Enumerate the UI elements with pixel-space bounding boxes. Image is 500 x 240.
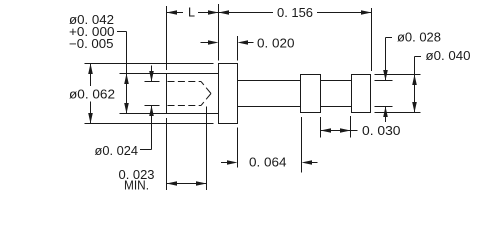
arrowhead Ø0.062 bottom	[88, 113, 93, 124]
arrowhead 0.030 left	[321, 128, 332, 133]
body bottom edge + left extension	[120, 113, 219, 115]
arrowhead Ø0.028 bottom (pointing up)	[383, 107, 388, 118]
flange top extension line	[85, 63, 214, 65]
arrowhead 0.030 right	[340, 128, 351, 133]
arrowhead 0.023 left	[167, 181, 178, 186]
svg-text:ø0. 062: ø0. 062	[69, 88, 115, 102]
arrowhead Ø0.024 top (pointing down)	[149, 71, 154, 82]
cavity bottom extension tick	[145, 105, 160, 107]
arrowhead 0.020 left (outside, pointing right)	[208, 40, 219, 45]
arrowhead L left	[167, 10, 178, 15]
0.023 dimension line	[167, 183, 207, 185]
dimension 0.020 arrows/tails	[201, 42, 254, 44]
body top edge + left extension	[120, 73, 219, 75]
arrowhead 0.064 left (outside, pointing right)	[227, 160, 238, 165]
right-end shaft bottom extension	[375, 106, 393, 108]
body left face	[166, 74, 168, 114]
collar band 2 at pin end (Ø0.040)	[352, 75, 371, 113]
arrowhead Ø0.042 bottom	[124, 103, 129, 114]
0.064 extension lines	[238, 117, 302, 173]
arrowhead Ø0.024 bottom (pointing up)	[149, 106, 154, 117]
arrowhead 0.023 right	[196, 181, 207, 186]
arrowhead 0.064 right (outside, pointing left)	[302, 160, 313, 165]
hidden cavity lines (Ø0.024 bore, dashed)	[168, 82, 212, 106]
arrowhead Ø0.040 top (pointing up)	[412, 75, 417, 86]
svg-text:0. 020: 0. 020	[257, 36, 295, 50]
cavity top extension tick	[145, 81, 160, 83]
svg-text:L: L	[188, 6, 195, 20]
arrowhead Ø0.040 bottom (pointing down)	[412, 102, 417, 113]
svg-text:ø0. 028: ø0. 028	[397, 31, 441, 45]
Ø0.040 leader + dimension vertical	[415, 57, 422, 113]
Ø0.042 leader + dimension vertical	[117, 32, 127, 114]
0.030 extension lines	[321, 116, 351, 138]
dimension L line	[167, 12, 219, 14]
arrowhead Ø0.062 top	[88, 64, 93, 75]
dimension L/0.156 shared extension at flange left	[218, 4, 220, 61]
0.030 dimension line + tail	[321, 130, 358, 132]
0.156 right extension at pin end	[371, 8, 373, 71]
arrowhead 0.020 right (outside, pointing left)	[238, 40, 249, 45]
arrowhead Ø0.042 top	[124, 74, 129, 85]
Ø0.062 dimension vertical	[90, 64, 92, 124]
svg-text:0. 064: 0. 064	[249, 156, 287, 170]
svg-text:ø0. 040: ø0. 040	[426, 49, 471, 63]
svg-text:−0. 005: −0. 005	[69, 37, 114, 51]
arrowhead Ø0.028 top (pointing down)	[383, 70, 388, 81]
0.023 extension lines	[167, 107, 207, 191]
right-end collar bottom extension	[375, 112, 421, 114]
shaft (Ø0.028 tail)	[238, 81, 352, 107]
svg-text:ø0. 024: ø0. 024	[95, 144, 139, 158]
right-end shaft top extension	[375, 80, 393, 82]
flange bottom extension line	[85, 123, 214, 125]
Ø0.028 leader + dimension vertical	[386, 38, 393, 123]
dimension 0.156 line	[219, 12, 372, 14]
arrowhead 0.156 left	[219, 10, 230, 15]
arrowhead L right	[208, 10, 219, 15]
svg-text:0. 030: 0. 030	[362, 124, 401, 138]
collar band 1 (Ø0.040)	[301, 75, 321, 113]
right-end collar top extension	[375, 74, 421, 76]
flange (Ø0.062)	[219, 64, 238, 124]
dimension L: extension line at body left	[166, 6, 168, 70]
body outline (Ø0.042 shank)	[120, 74, 219, 114]
flange right upper extension line	[237, 36, 239, 61]
svg-text:MIN.: MIN.	[124, 179, 149, 193]
Ø0.024 dimension verticals + leader bracket	[140, 66, 152, 150]
drill point	[201, 82, 211, 106]
svg-text:0. 156: 0. 156	[277, 6, 313, 20]
0.064 dimension tails	[221, 162, 318, 164]
arrowhead 0.156 right	[361, 10, 372, 15]
